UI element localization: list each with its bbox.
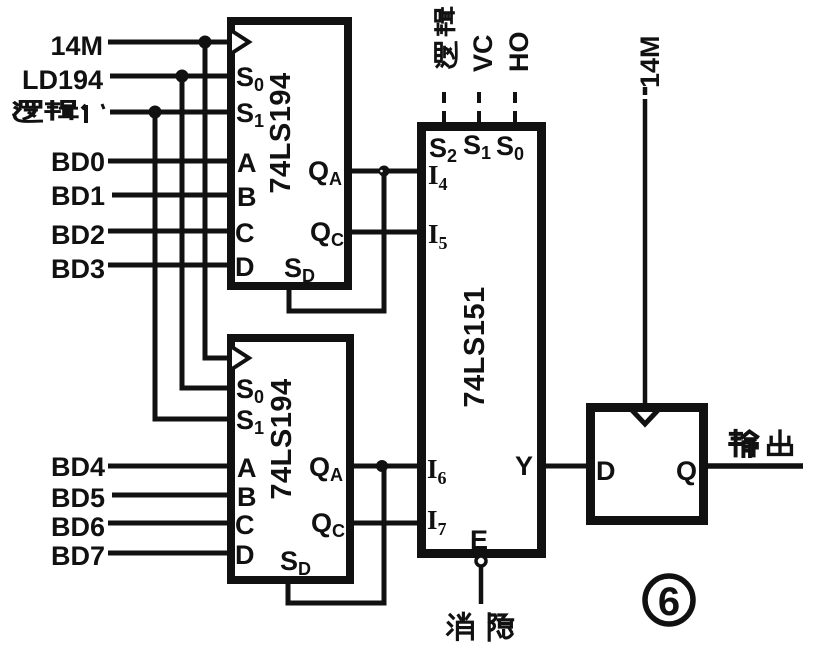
svg-text:C: C (235, 510, 255, 540)
svg-text:74LS194: 74LS194 (266, 378, 298, 499)
node label 消隐 (blanking) (448, 613, 513, 640)
svg-text:74LS194: 74LS194 (265, 72, 297, 193)
junction 逻辑1 (149, 106, 162, 119)
svg-text:BD1: BD1 (51, 181, 105, 211)
wire BD5 to pin B (112, 493, 229, 498)
junction LD194 (176, 70, 189, 83)
wire SD feedback (bottom 194) (288, 469, 384, 603)
svg-text:BD3: BD3 (51, 254, 105, 284)
svg-text:BD7: BD7 (51, 541, 105, 571)
svg-text:QC: QC (311, 508, 345, 541)
node label BD0 (51, 147, 105, 177)
figure number circled 6 (645, 576, 693, 624)
node label BD2 (51, 220, 105, 250)
junction QA2/SD feedback (376, 460, 388, 472)
dashed stub S2 (442, 92, 446, 123)
svg-text:A: A (237, 453, 257, 483)
wire LD194 down to lower S0 (182, 76, 229, 388)
wire QC (bottom 194) to I7 (350, 521, 421, 526)
wire E (blanking input) (479, 567, 484, 604)
svg-text:14M: 14M (635, 35, 665, 88)
wire BD6 to pin C (108, 521, 229, 526)
svg-text:QA: QA (309, 452, 343, 485)
svg-text:C: C (235, 218, 255, 248)
wire BD2 to pin C (108, 229, 229, 234)
wire BD4 to pin A (108, 464, 229, 469)
D flip-flop U4 (591, 407, 704, 521)
shift register U2 74LS194 (bottom) (231, 338, 350, 580)
wire BD3 to pin D (108, 263, 229, 268)
wire QA (top 194) to I4 (348, 169, 421, 174)
wire LD194 to top S0 (110, 74, 229, 79)
svg-text:B: B (237, 482, 257, 512)
svg-text:BD2: BD2 (51, 220, 105, 250)
svg-text:S1: S1 (236, 98, 264, 131)
svg-text:BD4: BD4 (51, 452, 105, 482)
svg-text:BD6: BD6 (51, 512, 105, 542)
node label 输出 (output) (730, 431, 791, 456)
svg-text:I4: I4 (428, 160, 448, 194)
junction QA/SD feedback (ring) (379, 166, 390, 177)
svg-text:BD5: BD5 (51, 483, 105, 513)
wire Y output to flip-flop D (542, 464, 590, 469)
svg-text:S0: S0 (496, 131, 524, 164)
control net HO (rotated label) (504, 32, 534, 73)
wire SD feedback (top 194) (289, 174, 384, 311)
node label BD4 (51, 452, 105, 482)
svg-text:I5: I5 (428, 219, 448, 253)
svg-text:A: A (237, 148, 257, 178)
svg-text:S1: S1 (236, 405, 264, 438)
svg-text:14M: 14M (50, 31, 103, 61)
svg-text:Q: Q (676, 456, 697, 486)
node label BD1 (51, 181, 105, 211)
svg-text:E: E (470, 525, 488, 555)
shift register U1 74LS194 (top) (231, 21, 348, 286)
svg-text:S0: S0 (236, 62, 264, 95)
node label BD3 (51, 254, 105, 284)
wire BD1 to pin B (112, 193, 229, 198)
wire 14M to top 74LS194 clock (108, 40, 229, 45)
control net 逻辑 (rotated label) (436, 8, 457, 67)
wire 逻辑1 to top S1 (110, 110, 229, 115)
svg-text:QA: QA (308, 156, 342, 189)
svg-text:B: B (237, 182, 257, 212)
svg-text:D: D (235, 540, 255, 570)
svg-text:VC: VC (468, 34, 498, 72)
svg-text:SD: SD (280, 546, 311, 579)
node label BD6 (51, 512, 105, 542)
node label BD7 (51, 541, 105, 571)
svg-text:D: D (596, 456, 616, 486)
svg-text:LD194: LD194 (22, 65, 103, 95)
wire 14M down to lower 74LS194 clock (205, 42, 229, 358)
control net VC (rotated label) (468, 34, 498, 72)
svg-text:I7: I7 (427, 505, 447, 539)
node label 14M (right, rotated) (635, 35, 665, 88)
node label 逻辑1 (logic 1) (14, 101, 104, 123)
svg-text:74LS151: 74LS151 (459, 286, 491, 407)
wire 逻辑1 down to lower S1 (155, 112, 229, 419)
node label 14M (left clock input) (50, 31, 103, 61)
svg-text:6: 6 (658, 580, 680, 624)
svg-text:S0: S0 (236, 374, 264, 407)
multiplexer U3 74LS151 (422, 127, 542, 556)
wire BD0 to pin A (108, 159, 229, 164)
wire BD7 to pin D (108, 551, 229, 556)
dashed stub S1 (477, 92, 481, 123)
wire QC (top 194) to I5 (348, 230, 421, 235)
junction 14M (199, 36, 212, 49)
svg-text:BD0: BD0 (51, 147, 105, 177)
wire Q output (704, 463, 803, 469)
wire 14M down to flip-flop clock (dashed start) (643, 87, 648, 407)
svg-text:S1: S1 (463, 130, 491, 163)
node label BD5 (51, 483, 105, 513)
pin E inverter bubble (476, 556, 486, 566)
svg-text:HO: HO (504, 32, 534, 73)
svg-text:Y: Y (515, 451, 533, 481)
node label LD194 (22, 65, 103, 95)
dashed stub S0 (513, 92, 517, 123)
svg-text:SD: SD (284, 253, 315, 286)
svg-text:I6: I6 (427, 454, 447, 488)
svg-text:D: D (235, 252, 255, 282)
svg-text:QC: QC (310, 217, 344, 250)
wire QA (bottom 194) to I6 (350, 464, 421, 469)
